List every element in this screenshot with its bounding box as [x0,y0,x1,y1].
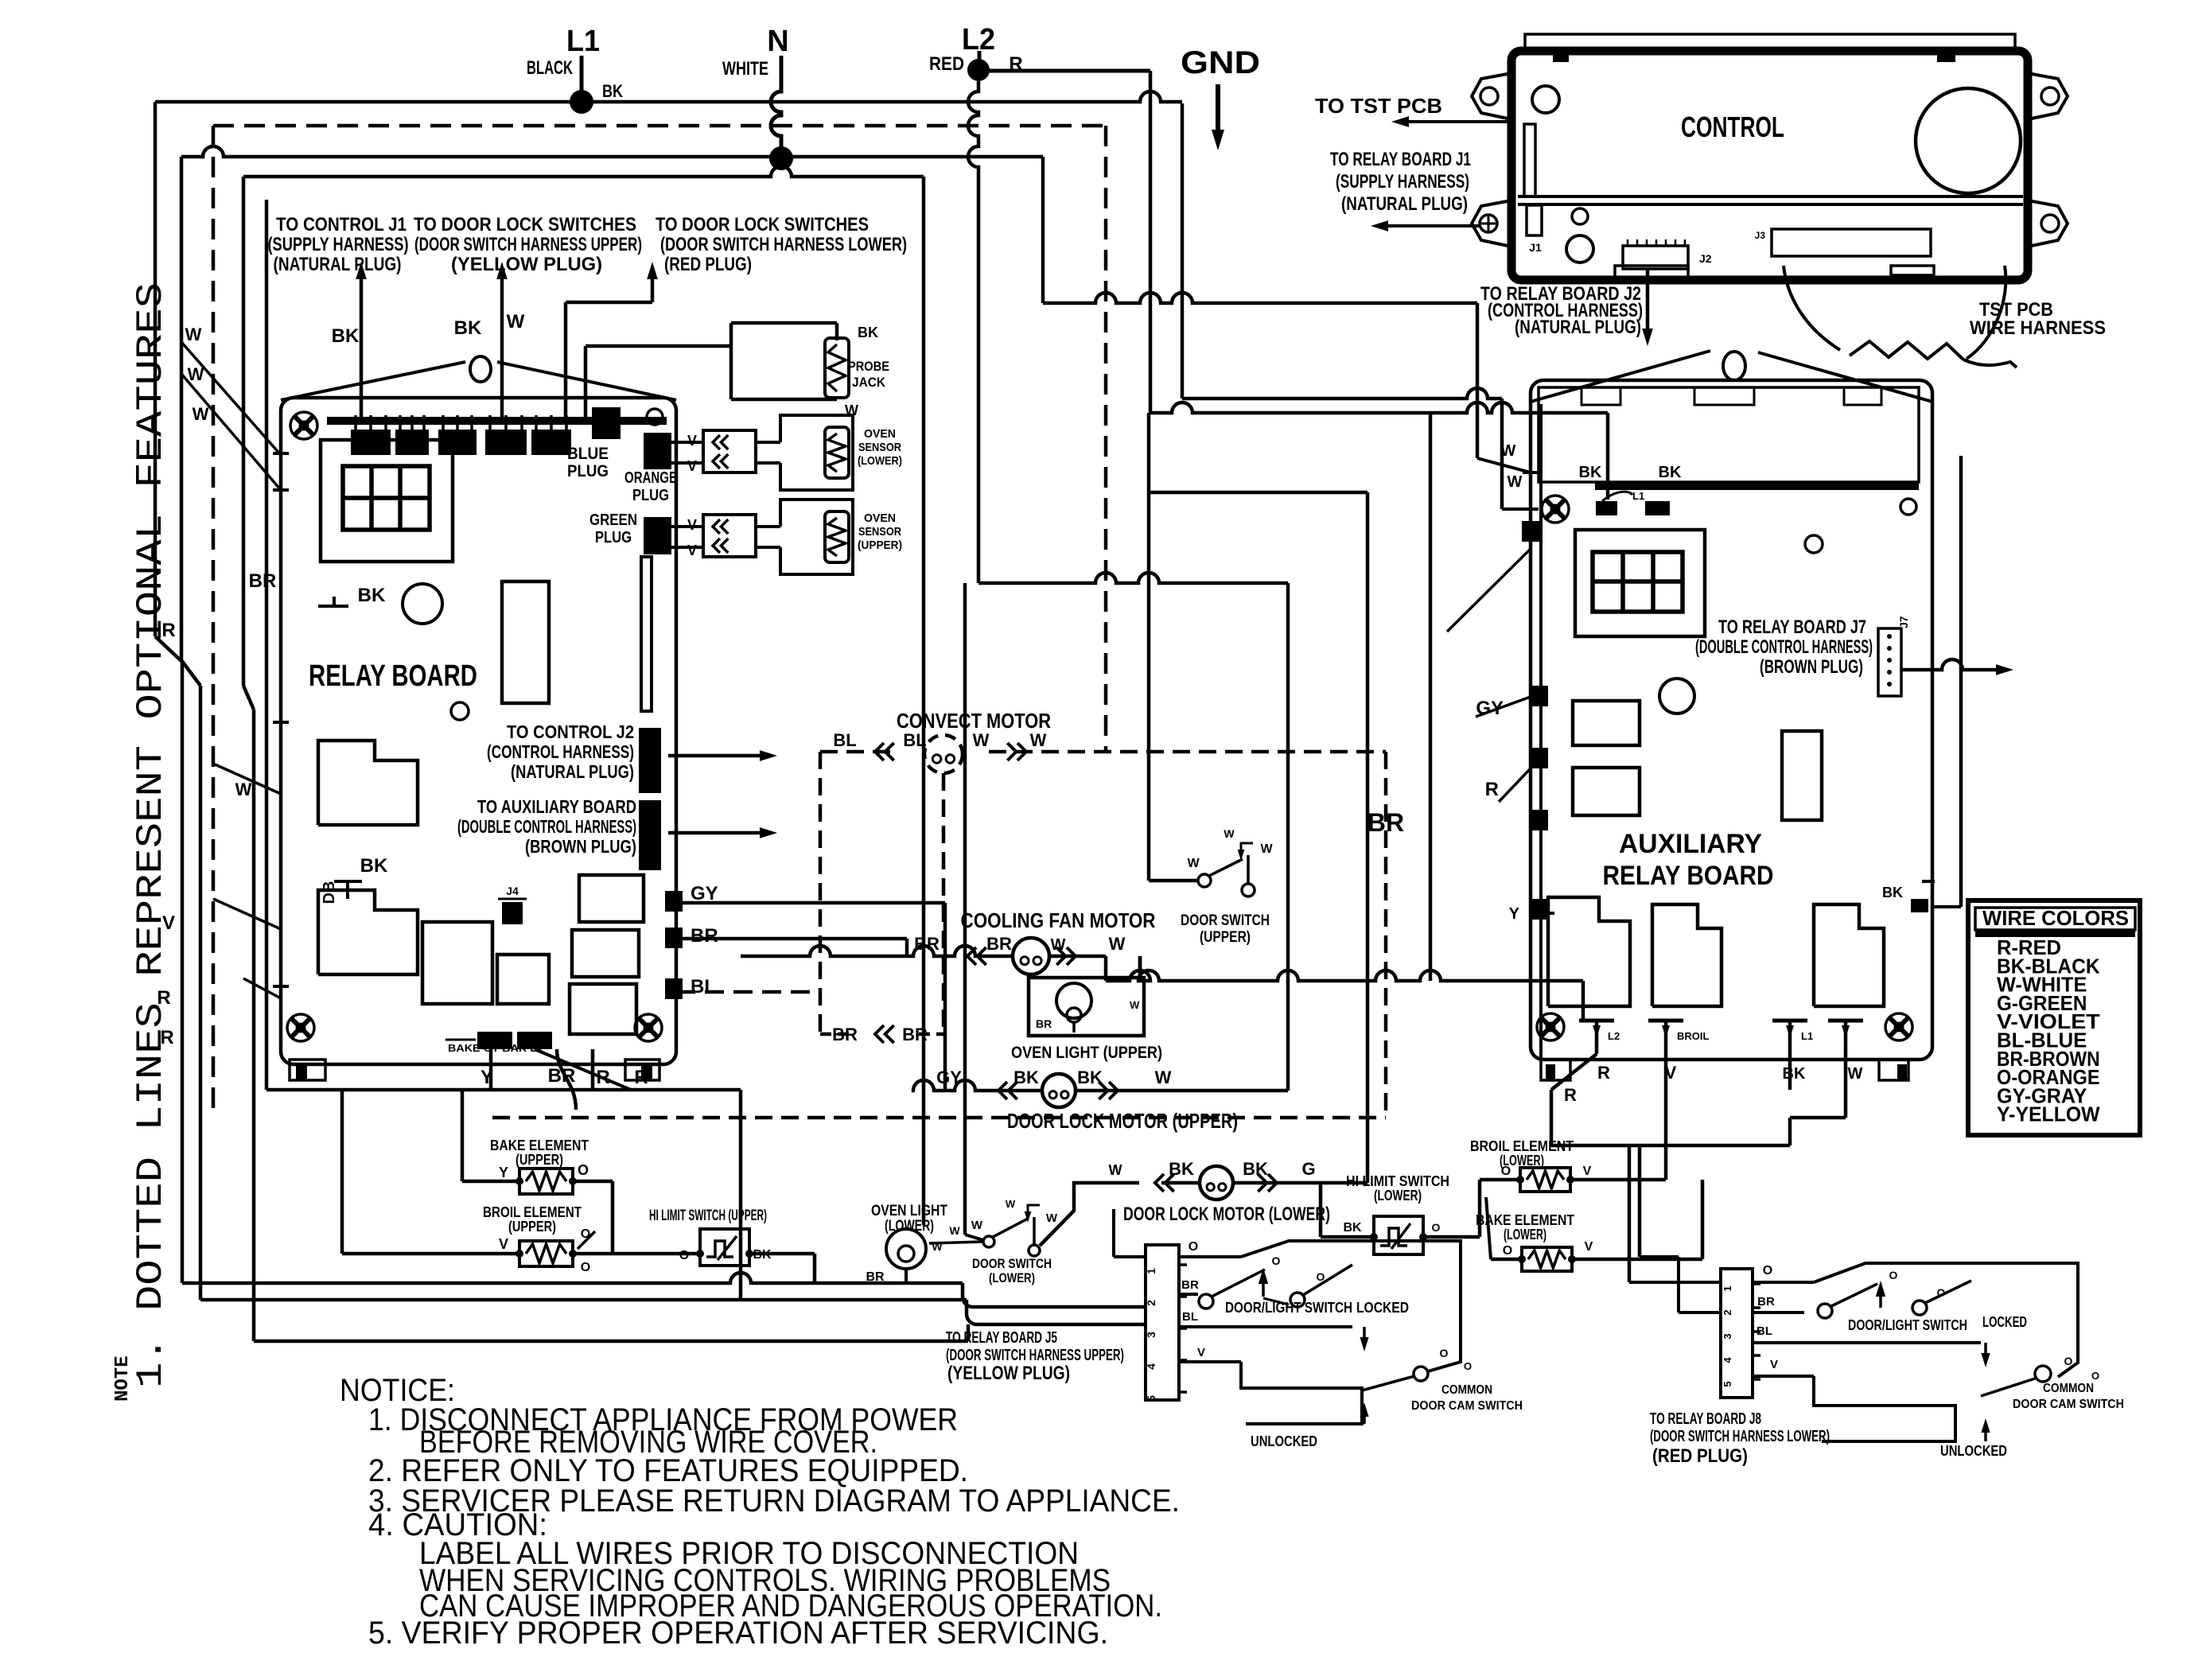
svg-text:O: O [578,1162,589,1178]
svg-text:L1: L1 [566,25,600,58]
svg-text:L1: L1 [1801,1030,1813,1042]
svg-text:BK: BK [332,325,360,347]
svg-text:4: 4 [1722,1357,1733,1363]
svg-text:BROIL ELEMENT: BROIL ELEMENT [483,1204,582,1220]
svg-text:1. DOTTED LINES REPRESENT OPTI: 1. DOTTED LINES REPRESENT OPTIONAL FEATU… [130,282,172,1388]
svg-text:BR: BR [249,570,277,592]
svg-text:(BROWN PLUG): (BROWN PLUG) [525,836,636,857]
svg-text:(LOWER): (LOWER) [1504,1227,1546,1242]
svg-text:BLACK: BLACK [527,57,573,79]
svg-text:GY: GY [936,1067,962,1087]
svg-text:(DOOR SWITCH HARNESS UPPER): (DOOR SWITCH HARNESS UPPER) [946,1347,1124,1364]
svg-text:(UPPER): (UPPER) [858,539,902,552]
svg-text:(DOUBLE CONTROL HARNESS): (DOUBLE CONTROL HARNESS) [1695,636,1873,658]
svg-text:BLUE: BLUE [567,445,609,463]
svg-text:O: O [679,1249,689,1262]
svg-text:2: 2 [1145,1300,1157,1306]
svg-text:O: O [1763,1264,1772,1277]
svg-text:(UPPER): (UPPER) [1200,929,1251,946]
svg-text:BR: BR [1757,1295,1775,1309]
svg-text:DB: DB [321,881,338,904]
svg-text:W: W [1006,1198,1016,1210]
svg-text:L2: L2 [1608,1030,1620,1042]
svg-text:DOOR LOCK MOTOR (LOWER): DOOR LOCK MOTOR (LOWER) [1123,1204,1330,1225]
svg-text:V: V [687,458,697,474]
svg-text:BK: BK [1077,1067,1103,1087]
svg-text:(DOUBLE CONTROL HARNESS): (DOUBLE CONTROL HARNESS) [457,816,636,837]
svg-text:BK: BK [602,81,623,101]
svg-text:RELAY BOARD: RELAY BOARD [1603,861,1774,891]
svg-text:TO AUXILIARY BOARD: TO AUXILIARY BOARD [477,796,636,817]
svg-text:RED: RED [929,53,964,75]
svg-text:R: R [1597,1063,1610,1083]
svg-text:BK: BK [454,317,482,339]
svg-text:TO RELAY BOARD J1: TO RELAY BOARD J1 [1330,149,1471,170]
svg-text:O: O [1889,1269,1898,1281]
svg-text:(NATURAL PLUG): (NATURAL PLUG) [511,761,634,782]
svg-text:ORANGE: ORANGE [624,469,677,487]
svg-text:TO RELAY BOARD J8: TO RELAY BOARD J8 [1650,1410,1761,1428]
svg-text:G: G [1301,1159,1315,1179]
svg-text:J2: J2 [1699,252,1712,265]
svg-text:W: W [1109,934,1126,954]
svg-text:BR: BR [1036,1017,1052,1030]
svg-text:OVEN: OVEN [864,427,896,441]
svg-text:(NATURAL PLUG): (NATURAL PLUG) [1515,317,1641,338]
svg-text:O: O [1503,1244,1512,1258]
svg-text:W: W [932,1240,943,1253]
svg-text:5: 5 [1145,1395,1157,1402]
svg-text:3: 3 [1722,1333,1733,1339]
svg-text:(NATURAL PLUG): (NATURAL PLUG) [1341,193,1468,215]
svg-text:5. VERIFY PROPER OPERATION AFT: 5. VERIFY PROPER OPERATION AFTER SERVICI… [368,1616,1108,1651]
svg-text:(BROWN PLUG): (BROWN PLUG) [1760,656,1863,678]
svg-text:Y: Y [1509,905,1520,923]
svg-text:BK: BK [1579,464,1602,481]
svg-text:V: V [687,433,697,449]
svg-text:1: 1 [1722,1285,1733,1291]
svg-text:(RED PLUG): (RED PLUG) [664,254,752,275]
svg-text:(RED PLUG): (RED PLUG) [1652,1445,1748,1467]
svg-text:TO CONTROL J2: TO CONTROL J2 [507,721,634,742]
svg-text:DOOR CAM SWITCH: DOOR CAM SWITCH [2013,1398,2124,1411]
svg-text:DOOR SWITCH: DOOR SWITCH [1181,912,1270,929]
svg-text:O: O [1937,1286,1946,1299]
svg-text:BK: BK [1659,464,1682,481]
svg-text:COMMON: COMMON [1441,1383,1492,1397]
svg-text:COMMON: COMMON [2043,1382,2094,1395]
svg-text:J4: J4 [506,885,519,897]
svg-text:BK: BK [1013,1067,1039,1087]
svg-text:BR: BR [691,925,718,947]
svg-text:W: W [971,1219,983,1232]
svg-text:BK: BK [858,325,878,340]
svg-text:TO RELAY BOARD J7: TO RELAY BOARD J7 [1718,616,1866,638]
svg-text:V: V [499,1236,508,1252]
svg-text:W: W [973,730,990,750]
svg-text:(DOOR SWITCH HARNESS LOWER): (DOOR SWITCH HARNESS LOWER) [660,234,907,255]
svg-text:R: R [634,1067,648,1088]
svg-text:(LOWER): (LOWER) [858,454,902,468]
svg-text:J1: J1 [1529,241,1542,254]
svg-text:(SUPPLY HARNESS): (SUPPLY HARNESS) [268,234,409,255]
svg-text:W: W [1187,857,1200,870]
svg-text:V: V [1197,1346,1205,1359]
svg-text:BR: BR [986,934,1012,954]
svg-text:(LOWER): (LOWER) [1374,1188,1422,1204]
svg-text:WHITE: WHITE [722,58,768,80]
svg-text:RELAY BOARD: RELAY BOARD [309,659,477,693]
svg-text:W: W [185,325,202,344]
svg-text:PLUG: PLUG [632,487,669,504]
svg-text:BL: BL [1757,1324,1772,1338]
svg-text:DOOR/LIGHT SWITCH: DOOR/LIGHT SWITCH [1848,1317,1967,1333]
svg-text:(SUPPLY HARNESS): (SUPPLY HARNESS) [1336,171,1469,192]
svg-text:TO CONTROL J1: TO CONTROL J1 [276,214,407,235]
svg-text:SENSOR: SENSOR [858,525,901,539]
svg-text:CONVECT MOTOR: CONVECT MOTOR [897,709,1051,733]
svg-text:W: W [1224,827,1235,840]
svg-text:Y: Y [499,1165,508,1180]
svg-text:O: O [1432,1221,1441,1234]
svg-text:O: O [581,1261,590,1274]
svg-text:BL: BL [903,730,926,750]
svg-text:BL: BL [691,976,716,997]
svg-text:PROBE: PROBE [848,359,889,374]
svg-text:LOCKED: LOCKED [1982,1314,2027,1330]
svg-text:W: W [949,1224,960,1237]
svg-text:(UPPER): (UPPER) [515,1152,563,1168]
svg-text:R: R [1564,1085,1577,1105]
svg-text:V: V [687,517,697,533]
svg-text:BK: BK [1882,885,1903,900]
svg-text:(YELLOW PLUG): (YELLOW PLUG) [947,1363,1070,1384]
svg-text:(YELLOW PLUG): (YELLOW PLUG) [451,254,602,275]
svg-text:O: O [1440,1347,1449,1359]
svg-text:V: V [1585,1240,1593,1254]
svg-text:W: W [1130,999,1140,1011]
svg-text:W: W [1046,1211,1058,1225]
svg-text:TO DOOR LOCK SWITCHES: TO DOOR LOCK SWITCHES [656,214,869,235]
svg-text:W: W [1260,842,1273,856]
svg-text:(UPPER): (UPPER) [508,1219,556,1235]
svg-text:CONTROL: CONTROL [1681,111,1784,143]
svg-text:WIRE HARNESS: WIRE HARNESS [1970,317,2106,339]
svg-text:TO RELAY BOARD J5: TO RELAY BOARD J5 [946,1329,1057,1347]
svg-text:OVEN LIGHT (UPPER): OVEN LIGHT (UPPER) [1011,1044,1162,1062]
svg-text:BROIL ELEMENT: BROIL ELEMENT [1470,1138,1574,1154]
svg-text:O: O [1317,1270,1325,1283]
svg-text:PLUG: PLUG [567,462,609,480]
svg-text:BK: BK [1783,1065,1806,1083]
svg-text:AUXILIARY: AUXILIARY [1619,829,1762,859]
svg-text:Y-YELLOW: Y-YELLOW [1997,1102,2100,1126]
svg-text:BROIL: BROIL [1677,1030,1710,1042]
svg-text:W: W [193,404,209,424]
svg-text:TO TST PCB: TO TST PCB [1315,94,1442,118]
svg-text:BR: BR [914,934,940,954]
svg-text:LOCKED: LOCKED [1356,1300,1409,1316]
svg-text:O: O [1464,1360,1472,1372]
svg-text:DOOR SWITCH: DOOR SWITCH [972,1256,1052,1271]
svg-text:1: 1 [1145,1268,1157,1274]
svg-text:DOOR CAM SWITCH: DOOR CAM SWITCH [1411,1399,1523,1413]
svg-text:W: W [188,364,204,384]
svg-text:V: V [1583,1165,1592,1178]
svg-text:W: W [1848,1065,1863,1083]
svg-text:BR: BR [1181,1278,1199,1292]
svg-text:W: W [507,311,525,332]
svg-text:GND: GND [1181,45,1260,80]
svg-text:V: V [1770,1358,1778,1371]
svg-text:BK: BK [358,585,386,606]
svg-text:TO DOOR LOCK SWITCHES: TO DOOR LOCK SWITCHES [414,214,636,235]
svg-text:(LOWER): (LOWER) [885,1218,934,1235]
svg-text:W: W [235,780,252,799]
svg-text:OVEN LIGHT: OVEN LIGHT [871,1203,947,1219]
svg-text:V: V [687,542,697,558]
svg-text:COOLING FAN MOTOR: COOLING FAN MOTOR [961,908,1156,932]
svg-text:O: O [1272,1254,1281,1267]
svg-text:BL: BL [1182,1310,1198,1324]
svg-text:W: W [1508,473,1523,491]
svg-text:O: O [2091,1370,2099,1382]
svg-text:W: W [1051,936,1066,954]
svg-text:L1: L1 [1632,490,1644,502]
svg-text:OVEN: OVEN [864,511,896,525]
svg-text:BAKE CY BAK L1: BAKE CY BAK L1 [448,1042,543,1054]
svg-text:UNLOCKED: UNLOCKED [1940,1443,2007,1459]
svg-text:J7: J7 [1897,616,1910,628]
svg-text:PLUG: PLUG [595,529,632,546]
svg-text:BAKE ELEMENT: BAKE ELEMENT [1476,1212,1574,1228]
svg-text:O: O [1501,1165,1511,1178]
svg-text:(DOOR SWITCH HARNESS UPPER): (DOOR SWITCH HARNESS UPPER) [414,234,642,255]
svg-text:BK: BK [1243,1159,1268,1179]
svg-text:(CONTROL HARNESS): (CONTROL HARNESS) [487,741,634,762]
svg-text:SENSOR: SENSOR [858,441,901,454]
svg-text:W: W [1501,442,1516,460]
svg-text:HI LIMIT SWITCH (UPPER): HI LIMIT SWITCH (UPPER) [649,1207,767,1224]
svg-text:(LOWER): (LOWER) [989,1270,1035,1285]
svg-text:DOOR/LIGHT SWITCH: DOOR/LIGHT SWITCH [1225,1300,1352,1316]
svg-text:BK: BK [1343,1221,1362,1235]
svg-text:JACK: JACK [852,375,886,390]
svg-text:N: N [767,25,788,58]
svg-text:W: W [1030,730,1047,750]
svg-text:BAKE ELEMENT: BAKE ELEMENT [490,1137,589,1153]
svg-text:3: 3 [1145,1332,1157,1338]
svg-text:BL: BL [833,730,856,750]
svg-text:GREEN: GREEN [589,511,637,529]
svg-text:BK: BK [360,855,388,877]
svg-text:BK: BK [1169,1159,1194,1179]
svg-text:O: O [2064,1355,2073,1367]
svg-text:(NATURAL PLUG): (NATURAL PLUG) [274,254,402,275]
svg-text:UNLOCKED: UNLOCKED [1251,1433,1317,1449]
svg-text:(DOOR SWITCH HARNESS LOWER): (DOOR SWITCH HARNESS LOWER) [1650,1428,1830,1445]
svg-text:5: 5 [1722,1381,1733,1386]
svg-text:J3: J3 [1755,230,1766,241]
svg-text:HI LIMIT SWITCH: HI LIMIT SWITCH [1346,1173,1449,1189]
svg-text:W: W [1155,1067,1172,1087]
svg-text:R: R [1485,779,1499,800]
svg-text:DOOR LOCK MOTOR (UPPER): DOOR LOCK MOTOR (UPPER) [1007,1109,1238,1133]
svg-text:WIRE COLORS: WIRE COLORS [1982,906,2129,930]
svg-text:2: 2 [1722,1309,1733,1315]
svg-text:O: O [1189,1240,1198,1254]
svg-text:W: W [1109,1162,1122,1178]
svg-text:4: 4 [1145,1363,1157,1370]
